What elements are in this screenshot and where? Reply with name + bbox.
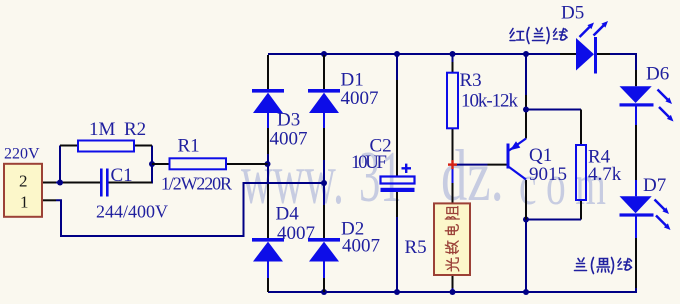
node AC2 junction dot <box>321 180 327 186</box>
wire pin1 AC2 path <box>56 183 324 236</box>
diode D4 <box>252 238 284 262</box>
wire Q1 collector column <box>525 180 527 292</box>
node R1 right junction dot <box>265 161 271 167</box>
connector J1 220V <box>4 164 42 217</box>
wire left bridge column <box>267 55 269 292</box>
wire R2-C1 left rail <box>59 146 61 183</box>
svg-text:9015: 9015 <box>529 164 567 185</box>
wire R4 top <box>526 109 581 111</box>
node bottom rail dot LDR <box>450 289 456 295</box>
svg-text:10UF: 10UF <box>351 152 387 173</box>
node base junction red cross <box>448 160 457 169</box>
svg-text:R3: R3 <box>460 70 482 91</box>
svg-text:4.7k: 4.7k <box>588 164 622 185</box>
wire R4 top lead <box>580 110 582 146</box>
wire LED column upper <box>635 70 637 86</box>
wire R2-C1 right rail <box>151 146 153 184</box>
svg-text:10k-12k: 10k-12k <box>461 91 519 112</box>
resistor R2 <box>60 141 152 152</box>
transistor Q1 <box>507 139 527 180</box>
wire R4 bottom <box>526 219 581 221</box>
photoresistor R5 box <box>434 203 470 275</box>
svg-text:1/2W220R: 1/2W220R <box>161 174 232 194</box>
resistor R1 <box>152 158 268 169</box>
node A junction dot <box>57 180 63 186</box>
wire right bridge column <box>323 55 325 292</box>
svg-text:4007: 4007 <box>270 129 308 150</box>
wire pin1 black stub <box>42 199 56 201</box>
svg-text:4007: 4007 <box>341 88 379 109</box>
wire bottom DC- rail <box>268 288 636 293</box>
svg-text:R5: R5 <box>405 237 427 258</box>
LED D7 <box>620 196 671 230</box>
node bottom rail dot D2 <box>321 289 327 295</box>
wire R3 column <box>452 55 454 203</box>
svg-text:Q1: Q1 <box>529 145 552 166</box>
svg-text:R2: R2 <box>124 119 146 140</box>
svg-text:4007: 4007 <box>342 236 380 257</box>
svg-text:1M: 1M <box>89 119 116 140</box>
wire top DC+ rail <box>268 53 636 70</box>
label 红(兰)线 <box>510 28 567 44</box>
svg-text:220V: 220V <box>4 146 40 163</box>
svg-text:D6: D6 <box>646 64 669 85</box>
LED D6 <box>620 86 674 121</box>
svg-text:D7: D7 <box>643 175 666 196</box>
diode D1 <box>308 89 340 113</box>
wire Q1 base <box>453 164 508 166</box>
resistor R3 <box>447 73 458 129</box>
diode D2 <box>308 238 340 262</box>
node bottom rail dot C2 <box>394 289 400 295</box>
node top rail dot Q1 <box>523 51 529 57</box>
node R1 left junction dot <box>149 161 155 167</box>
wire pin2 to junction A <box>42 182 63 184</box>
wire LDR bottom lead <box>452 275 454 292</box>
node collector junction dot <box>523 217 529 223</box>
capacitor C1 <box>63 169 152 197</box>
wire D5 cathode stub <box>597 53 611 55</box>
label 光敏电阻 vertical <box>445 207 459 272</box>
wire D5 anode stub <box>560 53 576 55</box>
node top rail dot C2 <box>394 51 400 57</box>
svg-text:244/400V: 244/400V <box>96 202 168 222</box>
wire D7 cathode to rail <box>635 217 637 289</box>
node R4 top junction dot <box>523 107 529 113</box>
node top rail dot R3 <box>450 51 456 57</box>
node top rail dot D1 <box>321 51 327 57</box>
wire R4 bottom lead <box>580 200 582 220</box>
wire D6-D7 link <box>635 106 637 196</box>
LED D5 <box>576 21 608 74</box>
diode D3 <box>252 89 284 113</box>
svg-text:D3: D3 <box>277 110 300 131</box>
label 兰(黑)线 <box>575 258 632 274</box>
svg-text:D4: D4 <box>276 204 300 225</box>
svg-text:C1: C1 <box>111 165 133 186</box>
svg-text:2: 2 <box>19 172 28 191</box>
svg-text:D5: D5 <box>561 3 584 24</box>
capacitor C2 <box>381 164 415 192</box>
svg-text:1: 1 <box>20 193 29 212</box>
watermark www.31dz.com <box>241 135 615 220</box>
wire C2 column <box>396 55 398 292</box>
svg-text:R1: R1 <box>178 136 200 157</box>
node bottom rail dot Q1 <box>523 289 529 295</box>
wire Q1 emitter column <box>525 55 527 139</box>
resistor R4 <box>576 145 586 200</box>
